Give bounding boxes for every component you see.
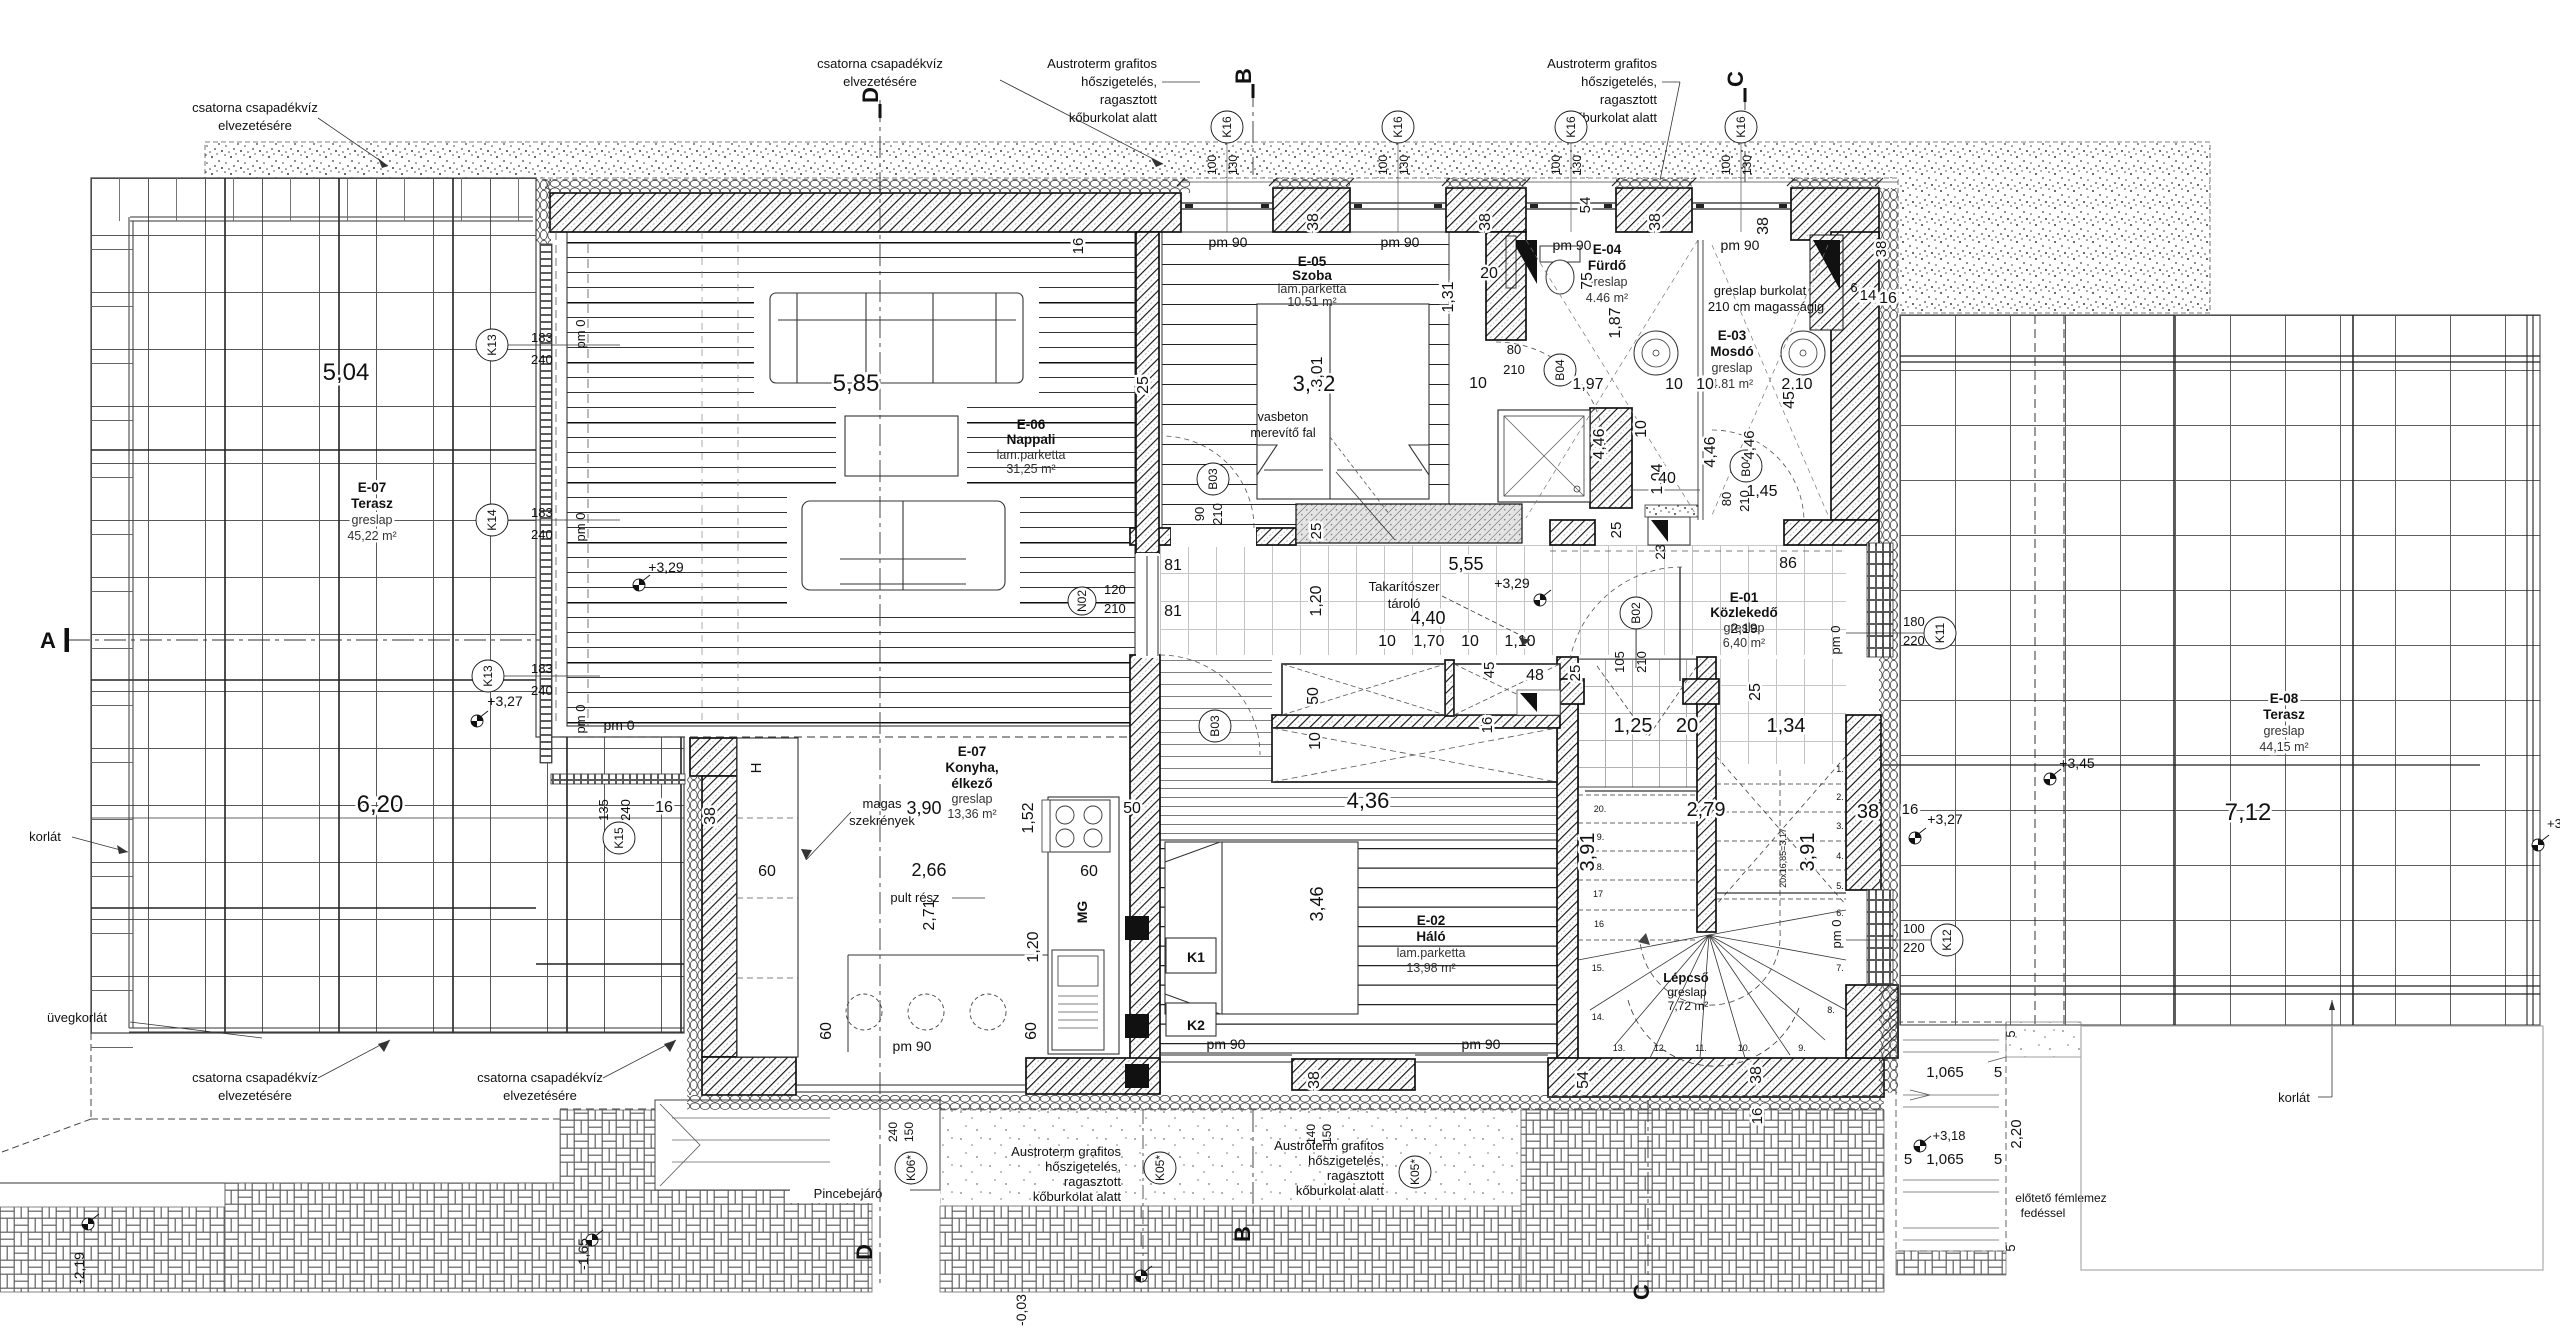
svg-text:ragasztott: ragasztott <box>1064 1174 1121 1189</box>
svg-text:4,46: 4,46 <box>1591 428 1608 459</box>
svg-text:1,25: 1,25 <box>1614 715 1653 737</box>
svg-text:16: 16 <box>1902 801 1919 818</box>
svg-text:1,065: 1,065 <box>1926 1064 1964 1081</box>
svg-text:20x16,85=3,17: 20x16,85=3,17 <box>1778 828 1788 888</box>
svg-text:greslap: greslap <box>952 792 993 806</box>
svg-text:H: H <box>748 763 765 774</box>
terrace border tile subdivisions <box>120 178 519 221</box>
wall: corridor bottom piers <box>1550 679 1584 704</box>
svg-text:23: 23 <box>1652 544 1668 560</box>
svg-text:pm 0: pm 0 <box>573 513 588 542</box>
svg-text:130: 130 <box>1397 155 1411 175</box>
svg-text:10.51 m²: 10.51 m² <box>1287 295 1336 309</box>
svg-text:45: 45 <box>1781 391 1798 409</box>
wall: closet divider <box>1445 660 1454 716</box>
svg-text:150: 150 <box>902 1122 916 1142</box>
svg-text:14.: 14. <box>1592 1012 1605 1022</box>
wall: shower stub <box>1590 408 1632 508</box>
svg-text:+3,18: +3,18 <box>1933 1128 1966 1143</box>
svg-text:3,91: 3,91 <box>1577 833 1599 872</box>
svg-text:+3,45: +3,45 <box>2059 755 2095 771</box>
svg-text:-0,03: -0,03 <box>1013 1294 1029 1326</box>
svg-text:2,79: 2,79 <box>1687 799 1726 821</box>
wall: stairs east lower <box>1846 985 1898 1058</box>
concrete stiffening wall <box>1296 504 1522 543</box>
svg-text:15.: 15. <box>1592 963 1605 973</box>
svg-text:1,31: 1,31 <box>1440 281 1457 312</box>
svg-text:Terasz: Terasz <box>2263 707 2305 722</box>
Pincebejaro cellar entrance <box>655 1100 940 1190</box>
Austroterm white band with sparse stipple <box>940 1110 1521 1206</box>
svg-text:C: C <box>1629 1284 1654 1300</box>
svg-text:240: 240 <box>531 527 553 542</box>
svg-text:10: 10 <box>1469 375 1487 392</box>
cooktop <box>1050 800 1110 852</box>
korlat leader <box>2318 1096 2332 1098</box>
furdo washbasin <box>1634 331 1678 375</box>
svg-text:Austroterm grafitos: Austroterm grafitos <box>1547 56 1657 71</box>
svg-text:csatorna csapadékvíz: csatorna csapadékvíz <box>192 100 318 115</box>
svg-text:K14: K14 <box>485 509 499 531</box>
svg-text:ragasztott: ragasztott <box>1600 92 1657 107</box>
svg-text:MG: MG <box>1074 901 1090 924</box>
svg-text:E-01: E-01 <box>1730 590 1759 605</box>
svg-text:20: 20 <box>1676 715 1698 737</box>
svg-text:merevítő fal: merevítő fal <box>1250 426 1315 440</box>
szoba bed <box>1257 304 1429 499</box>
svg-text:pm 0: pm 0 <box>603 717 634 733</box>
svg-text:183: 183 <box>531 330 553 345</box>
svg-text:16: 16 <box>1070 238 1087 255</box>
svg-text:ragasztott: ragasztott <box>1327 1168 1384 1183</box>
E-06 Nappali floor <box>567 232 1135 726</box>
svg-text:K16: K16 <box>1391 116 1405 138</box>
svg-text:+3,29: +3,29 <box>1494 575 1530 591</box>
svg-text:greslap burkolat: greslap burkolat <box>1714 283 1807 298</box>
svg-text:5.: 5. <box>1836 881 1844 891</box>
stairs upper flight <box>1716 756 1846 905</box>
svg-text:100: 100 <box>1903 921 1925 936</box>
svg-text:38: 38 <box>1477 213 1494 231</box>
svg-text:4,46: 4,46 <box>1741 430 1758 459</box>
wall: stairs spine <box>1697 657 1716 932</box>
svg-text:K2: K2 <box>1187 1017 1205 1033</box>
svg-text:8.: 8. <box>1827 1005 1835 1015</box>
svg-text:5: 5 <box>1994 1064 2002 1081</box>
svg-text:K05*: K05* <box>1153 1155 1167 1181</box>
terrace glass railing (uvegkorlat) <box>130 217 533 221</box>
svg-text:magas: magas <box>862 796 902 811</box>
svg-text:2,19: 2,19 <box>1730 620 1757 636</box>
svg-text:10: 10 <box>1307 732 1324 750</box>
svg-text:E-08: E-08 <box>2270 691 2299 706</box>
svg-text:3,01: 3,01 <box>1309 356 1326 387</box>
svg-text:10: 10 <box>1696 376 1714 393</box>
svg-text:40: 40 <box>1658 470 1676 487</box>
svg-text:25: 25 <box>1608 522 1625 539</box>
svg-text:12.: 12. <box>1654 1043 1667 1053</box>
svg-text:E-05: E-05 <box>1298 254 1327 269</box>
ground-floor ghost outline <box>2081 1026 2543 1270</box>
svg-text:D: D <box>852 1244 877 1260</box>
svg-text:+3,29: +3,29 <box>648 559 684 575</box>
wall: szoba/furdo <box>1486 232 1526 340</box>
grid bubble K16 <box>1211 111 1243 143</box>
stair dashed guides <box>1585 791 1846 893</box>
svg-text:38: 38 <box>1306 1071 1323 1089</box>
svg-text:10: 10 <box>1461 633 1479 650</box>
top windows glazing <box>1181 203 1273 209</box>
svg-text:13,36 m²: 13,36 m² <box>947 807 996 821</box>
door bubbles <box>1620 597 1652 629</box>
svg-text:10: 10 <box>1665 376 1683 393</box>
svg-text:1,20: 1,20 <box>1308 585 1325 616</box>
svg-text:240: 240 <box>618 799 633 821</box>
entrance canopy <box>1896 1022 2006 1251</box>
svg-text:220: 220 <box>1903 940 1925 955</box>
svg-text:+3,27: +3,27 <box>487 693 523 709</box>
svg-text:7.: 7. <box>1836 963 1844 973</box>
corridor floor strips <box>1160 655 1272 785</box>
stair landing tiles <box>1578 659 1697 787</box>
wall: kitchen west <box>690 738 737 776</box>
svg-text:100: 100 <box>1549 155 1563 175</box>
svg-text:hőszigetelés,: hőszigetelés, <box>1045 1159 1121 1174</box>
svg-text:Austroterm grafitos: Austroterm grafitos <box>1274 1138 1384 1153</box>
svg-text:pm 0: pm 0 <box>1829 920 1844 949</box>
terrace bottom dashed boundary <box>2 1033 560 1152</box>
svg-text:1,34: 1,34 <box>1767 715 1806 737</box>
svg-text:4.: 4. <box>1836 851 1844 861</box>
svg-text:1.: 1. <box>1836 764 1844 774</box>
wall: halo bottom pier <box>1292 1059 1415 1090</box>
svg-text:Konyha,: Konyha, <box>945 760 998 775</box>
svg-text:14: 14 <box>1860 287 1877 304</box>
svg-text:vasbeton: vasbeton <box>1258 410 1309 424</box>
wall: top pier 2 <box>1273 188 1350 232</box>
svg-text:240: 240 <box>886 1122 900 1142</box>
svg-text:Takarítószer: Takarítószer <box>1369 579 1440 594</box>
svg-text:csatorna csapadékvíz: csatorna csapadékvíz <box>817 56 943 71</box>
bottom paving basketweave strips <box>0 1207 225 1292</box>
svg-text:fedéssel: fedéssel <box>2021 1206 2066 1220</box>
svg-text:16: 16 <box>655 799 673 816</box>
svg-text:+3,: +3, <box>2547 816 2560 831</box>
svg-text:D: D <box>858 87 883 103</box>
svg-text:81: 81 <box>1164 557 1182 574</box>
svg-text:B03: B03 <box>1208 715 1222 737</box>
grid bubble K16 <box>1555 111 1587 143</box>
svg-text:210: 210 <box>1737 490 1752 512</box>
svg-text:16: 16 <box>1479 717 1496 734</box>
svg-text:A: A <box>40 628 56 653</box>
svg-text:20.: 20. <box>1594 804 1607 814</box>
svg-text:60: 60 <box>818 1022 835 1040</box>
svg-text:38: 38 <box>1305 213 1322 231</box>
nappali ceiling dashes <box>702 232 738 726</box>
svg-text:K16: K16 <box>1734 116 1748 138</box>
nappali daybed <box>802 501 1005 590</box>
svg-text:183: 183 <box>531 661 553 676</box>
wall: top pier 4 <box>1616 188 1692 232</box>
svg-text:1,70: 1,70 <box>1413 633 1444 650</box>
svg-text:4.81 m²: 4.81 m² <box>1711 377 1753 391</box>
left terrace E-07 grid <box>91 178 684 1033</box>
svg-text:6.: 6. <box>1836 908 1844 918</box>
E-01 corridor tiles <box>1160 545 1846 655</box>
stairs left flight <box>1578 795 1697 940</box>
svg-text:pm 90: pm 90 <box>1553 237 1592 253</box>
nappali furniture white margins <box>754 278 1039 398</box>
svg-text:45,22 m²: 45,22 m² <box>347 529 396 543</box>
svg-text:B04: B04 <box>1553 359 1567 381</box>
kitchen sink unit <box>1052 950 1104 1050</box>
svg-text:3.: 3. <box>1836 821 1844 831</box>
svg-text:pm 90: pm 90 <box>1381 234 1420 250</box>
svg-text:3,90: 3,90 <box>906 798 941 818</box>
svg-text:120: 120 <box>1104 582 1126 597</box>
svg-text:13,98 m²: 13,98 m² <box>1406 961 1455 975</box>
wall: stairs east upper <box>1846 715 1881 890</box>
svg-text:elvezetésére: elvezetésére <box>218 118 292 133</box>
szoba door gap B03 <box>1171 526 1256 547</box>
svg-text:86: 86 <box>1779 555 1797 572</box>
E-02 Halo floor <box>1160 840 1557 1053</box>
svg-text:5,85: 5,85 <box>833 370 880 397</box>
svg-text:1,97: 1,97 <box>1572 376 1603 393</box>
svg-text:K16: K16 <box>1220 116 1234 138</box>
svg-text:45: 45 <box>1481 662 1498 679</box>
svg-text:2.: 2. <box>1836 792 1844 802</box>
svg-text:180: 180 <box>1903 614 1925 629</box>
right window bubbles <box>1924 617 1956 649</box>
bottom windows <box>796 1085 1026 1092</box>
halo nightstands K1 K2 <box>1166 938 1216 973</box>
svg-text:elvezetésére: elvezetésére <box>843 74 917 89</box>
svg-text:210: 210 <box>1104 601 1126 616</box>
section C line <box>1648 88 1745 1290</box>
wall: kitchen/halo <box>1130 655 1160 1092</box>
svg-text:korlát: korlát <box>2278 1090 2310 1105</box>
svg-text:100: 100 <box>1719 155 1733 175</box>
svg-text:K13: K13 <box>481 665 495 687</box>
svg-text:210 cm magasságig: 210 cm magasságig <box>1708 299 1824 314</box>
svg-text:1,10: 1,10 <box>1504 633 1535 650</box>
svg-text:80: 80 <box>1719 492 1734 506</box>
furdo shaft wedge <box>1512 240 1537 284</box>
stairs fan <box>1578 910 1846 1066</box>
svg-text:pm 0: pm 0 <box>573 705 588 734</box>
svg-text:60: 60 <box>1080 863 1098 880</box>
svg-text:ragasztott: ragasztott <box>1100 92 1157 107</box>
svg-text:elvezetésére: elvezetésére <box>503 1088 577 1103</box>
svg-text:38: 38 <box>1857 801 1879 823</box>
svg-text:38: 38 <box>1647 213 1664 231</box>
svg-text:9.: 9. <box>1798 1043 1806 1053</box>
mosdo washbasin <box>1781 331 1825 375</box>
svg-text:E-03: E-03 <box>1718 328 1747 343</box>
svg-text:60: 60 <box>758 863 776 880</box>
pm0 dashed at nappali left <box>587 244 589 726</box>
svg-text:K13: K13 <box>485 334 499 356</box>
svg-text:10: 10 <box>1633 420 1650 438</box>
bottom bubbles <box>895 1152 927 1184</box>
svg-text:3,91: 3,91 <box>1797 833 1819 872</box>
svg-text:135: 135 <box>596 799 611 821</box>
svg-text:44,15 m²: 44,15 m² <box>2259 740 2308 754</box>
svg-text:greslap: greslap <box>1667 985 1707 999</box>
kitchen tall cabinets <box>737 738 798 1057</box>
big X void <box>1272 728 1557 782</box>
svg-text:Fürdő: Fürdő <box>1588 258 1626 273</box>
svg-text:Közlekedő: Közlekedő <box>1710 605 1778 620</box>
svg-text:105: 105 <box>1612 651 1627 673</box>
svg-text:31,25 m²: 31,25 m² <box>1006 462 1055 476</box>
svg-text:1,52: 1,52 <box>1020 802 1037 833</box>
svg-text:csatorna csapadékvíz: csatorna csapadékvíz <box>192 1070 318 1085</box>
leader lines <box>130 1022 262 1038</box>
shower tray <box>1498 410 1590 502</box>
grid bubble K16 <box>1725 111 1757 143</box>
svg-text:38: 38 <box>1873 241 1890 258</box>
svg-text:5: 5 <box>1904 1151 1912 1168</box>
svg-text:pm 90: pm 90 <box>893 1038 932 1054</box>
stairs walk line <box>1640 770 1780 1005</box>
svg-text:E-07: E-07 <box>958 744 987 759</box>
bar stools <box>846 994 882 1030</box>
svg-text:lam.parketta: lam.parketta <box>997 448 1066 462</box>
svg-text:élkező: élkező <box>951 776 992 791</box>
svg-text:K1: K1 <box>1187 949 1205 965</box>
nappali west glass wall <box>540 244 552 763</box>
svg-text:6: 6 <box>1850 280 1857 295</box>
wall: closet bottom <box>1272 715 1560 728</box>
svg-text:16: 16 <box>1594 919 1604 929</box>
svg-text:korlát: korlát <box>29 829 61 844</box>
svg-text:Szoba: Szoba <box>1292 268 1332 283</box>
svg-text:E-04: E-04 <box>1593 242 1622 257</box>
furdo/mosdo divider <box>1698 240 1703 520</box>
svg-text:B03: B03 <box>1206 468 1220 490</box>
svg-text:60: 60 <box>1023 1022 1040 1040</box>
svg-text:csatorna csapadékvíz: csatorna csapadékvíz <box>477 1070 603 1085</box>
svg-text:5,04: 5,04 <box>323 359 370 386</box>
svg-text:pm 0: pm 0 <box>573 320 588 349</box>
svg-text:130: 130 <box>1740 155 1754 175</box>
kitchen counter east <box>1048 797 1119 1054</box>
nappali sofa <box>770 293 1429 1036</box>
svg-text:Pincebejáró: Pincebejáró <box>814 1186 883 1201</box>
svg-text:K05*: K05* <box>1408 1159 1422 1185</box>
svg-text:szekrények: szekrények <box>849 813 915 828</box>
svg-text:2,10: 2,10 <box>1781 376 1812 393</box>
svg-text:hőszigetelés,: hőszigetelés, <box>1081 74 1157 89</box>
svg-text:Lépcső: Lépcső <box>1663 970 1709 985</box>
svg-text:10.: 10. <box>1738 1043 1751 1053</box>
svg-text:6,20: 6,20 <box>357 791 404 818</box>
svg-text:220: 220 <box>1903 633 1925 648</box>
grid bubble K16 <box>1382 111 1414 143</box>
insulation strips <box>545 179 1190 193</box>
svg-text:16: 16 <box>1879 290 1897 307</box>
svg-text:6,40 m²: 6,40 m² <box>1723 636 1765 650</box>
svg-text:183: 183 <box>531 505 553 520</box>
svg-text:Nappali: Nappali <box>1007 432 1056 447</box>
nappali coffee table <box>845 416 958 476</box>
svg-text:54: 54 <box>1577 197 1594 214</box>
window K11 <box>1867 543 1893 657</box>
svg-text:13.: 13. <box>1613 1043 1626 1053</box>
svg-text:greslap: greslap <box>1712 361 1753 375</box>
left window bubbles <box>476 329 508 361</box>
svg-text:11.: 11. <box>1695 1043 1707 1053</box>
svg-text:20: 20 <box>1480 265 1498 282</box>
svg-text:1,87: 1,87 <box>1607 307 1624 338</box>
svg-text:-2,19: -2,19 <box>71 1252 87 1284</box>
svg-text:4,46: 4,46 <box>1702 436 1719 467</box>
small cabinet mosdo bottom <box>1645 505 1698 517</box>
wall: top-right corner <box>1791 188 1879 240</box>
wall: top main <box>550 193 1181 232</box>
svg-text:E-07: E-07 <box>358 480 387 495</box>
svg-text:pult rész: pult rész <box>890 890 939 905</box>
svg-text:pm 90: pm 90 <box>1209 234 1248 250</box>
svg-text:5: 5 <box>1994 1151 2002 1168</box>
wall: halo bottom west <box>1026 1058 1160 1094</box>
svg-text:pm 90: pm 90 <box>1462 1036 1501 1052</box>
svg-text:K15: K15 <box>612 827 626 849</box>
svg-text:K06*: K06* <box>904 1155 918 1181</box>
svg-text:4,40: 4,40 <box>1410 608 1445 628</box>
svg-text:38: 38 <box>702 807 719 825</box>
svg-text:210: 210 <box>1210 503 1225 525</box>
section D line <box>879 100 881 1285</box>
svg-text:5,55: 5,55 <box>1448 554 1483 574</box>
svg-text:5: 5 <box>2003 1244 2018 1251</box>
halo bed <box>1165 842 1358 1014</box>
svg-text:130: 130 <box>1226 155 1240 175</box>
svg-text:kőburkolat alatt: kőburkolat alatt <box>1296 1183 1385 1198</box>
svg-text:7,72 m²: 7,72 m² <box>1668 999 1709 1013</box>
svg-text:10: 10 <box>1378 633 1396 650</box>
section B line <box>1252 85 1254 1225</box>
top wall dimension chain <box>1181 181 1898 183</box>
svg-text:Mosdó: Mosdó <box>1710 344 1754 359</box>
svg-text:pm 90: pm 90 <box>1207 1036 1246 1052</box>
wall: nappali east <box>1136 232 1159 553</box>
section A line <box>68 639 540 641</box>
E-05 Szoba floor <box>1162 232 1449 528</box>
svg-text:greslap: greslap <box>2264 724 2305 738</box>
svg-text:lam.parketta: lam.parketta <box>1278 282 1347 296</box>
svg-text:81: 81 <box>1164 603 1182 620</box>
mosdo shaft <box>1810 235 1843 330</box>
furdo toilet <box>1540 246 1580 262</box>
svg-text:130: 130 <box>1570 155 1584 175</box>
level markers <box>633 575 650 591</box>
svg-text:3,46: 3,46 <box>1307 886 1327 921</box>
svg-text:hőszigetelés,: hőszigetelés, <box>1581 74 1657 89</box>
svg-text:25: 25 <box>1567 665 1584 682</box>
svg-text:B: B <box>1231 68 1256 84</box>
right terrace E-08 grid <box>1900 315 2540 1025</box>
svg-text:100: 100 <box>1376 155 1390 175</box>
svg-text:Austroterm grafitos: Austroterm grafitos <box>1011 1144 1121 1159</box>
svg-text:C: C <box>1723 71 1748 87</box>
svg-text:25: 25 <box>1308 523 1325 540</box>
svg-text:elvezetésére: elvezetésére <box>218 1088 292 1103</box>
svg-text:greslap: greslap <box>352 513 393 527</box>
